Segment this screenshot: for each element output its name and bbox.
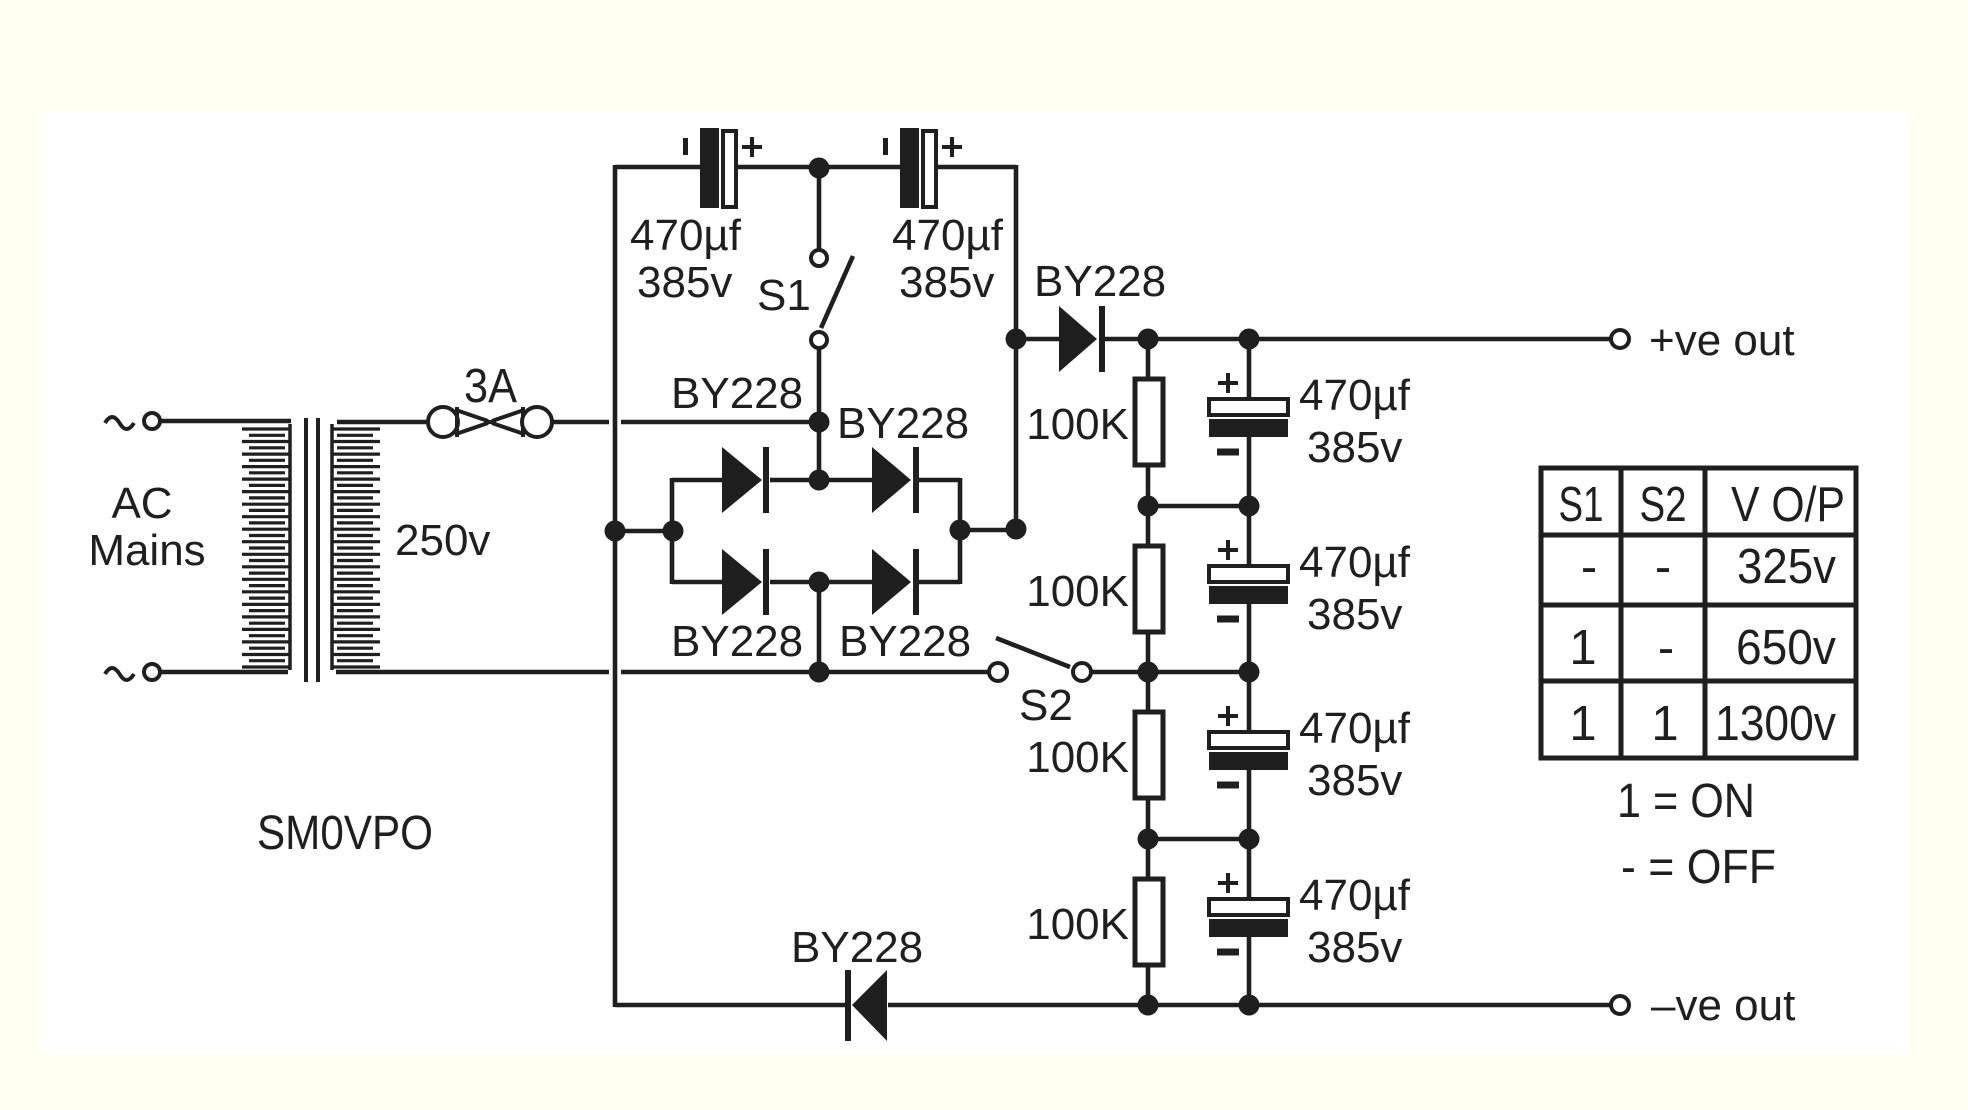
table row2 S1 1 [1569,621,1596,675]
wire divider row 1 [1148,504,1249,509]
svg-text:385v: 385v [1307,923,1402,972]
label C4 470uf [1299,538,1411,587]
label 250v [395,516,490,565]
label D4 BY228 [839,617,971,666]
node divider row 3 right [1239,829,1260,850]
table row1 S2 - [1655,540,1671,594]
bridge bottom rail [672,580,960,585]
svg-text:AC: AC [111,479,172,528]
node bottom wire / C6 [1239,995,1260,1016]
node divider row 1 left [1138,496,1159,517]
table row2 S2 - [1658,621,1674,675]
table row3 S2 1 [1651,697,1678,751]
label R4 100K [1026,900,1129,949]
svg-text:-: - [1581,540,1597,594]
wire right rail to D5 [1016,337,1059,342]
svg-text:470µf: 470µf [1299,371,1411,420]
label D3 BY228 [671,617,803,666]
node bridge bottom AC [809,662,830,683]
table header S2 [1640,478,1687,532]
svg-text:470µf: 470µf [1299,704,1411,753]
svg-text:BY228: BY228 [839,617,971,666]
resistor R2 100K [1135,506,1163,672]
transformer T1 secondary winding [331,424,380,670]
label R2 100K [1026,567,1129,616]
svg-text:-: - [1655,540,1671,594]
svg-text:-: - [1658,621,1674,675]
label S1 [757,271,811,320]
capacitor C2 470uf 385v [883,128,962,208]
capacitor C1 470uf 385v [683,128,762,208]
legend - = OFF [1621,841,1776,894]
label -ve out [1651,981,1795,1030]
wire crossing to node A [621,420,819,425]
transformer T1 core [306,418,318,682]
wire bridge bottom center down [817,582,822,672]
node divider row 2 left [1138,662,1159,683]
label C6 470uf [1299,871,1411,920]
table header S1 [1559,478,1604,532]
svg-text:470µf: 470µf [892,211,1004,260]
diode D2 BY228 (bridge top-right) [872,447,919,513]
label D6 BY228 [791,923,923,972]
node left rail junction [605,521,626,542]
node bottom wire / R4 [1138,995,1159,1016]
svg-text:385v: 385v [1307,423,1402,472]
table row2 650v [1736,621,1836,675]
label C1 385v [637,258,732,307]
node right rail bottom [1006,519,1027,540]
wire AC neutral to primary [161,670,288,675]
diode D5 BY228 (+ve out) [1059,306,1105,372]
capacitor C4 470uf 385v [1209,506,1288,672]
diode D3 BY228 (bridge bottom-left) [722,549,769,615]
svg-text:1: 1 [1651,697,1678,751]
svg-text:100K: 100K [1026,400,1129,449]
svg-text:470µf: 470µf [630,211,742,260]
label R1 100K [1026,400,1129,449]
wire bridge right tap [960,528,1016,533]
resistor R1 100K [1135,339,1163,506]
svg-text:470µf: 470µf [1299,538,1411,587]
wire bottom right [888,1003,1611,1008]
label C1 470uf [630,211,742,260]
label D2 BY228 [837,399,969,448]
label C5 385v [1307,756,1402,805]
svg-text:250v: 250v [395,516,490,565]
node divider row 3 left [1138,829,1159,850]
svg-text:S1: S1 [757,271,811,320]
svg-text:385v: 385v [637,258,732,307]
diode D1 BY228 (bridge top-left) [722,447,769,513]
svg-text:SM0VPO: SM0VPO [257,807,433,860]
AC neutral terminal (~) [105,664,160,680]
wire crossing to S2 [621,670,990,675]
wire S2 to divider [1091,670,1250,675]
node bridge left [663,521,684,542]
label C2 470uf [892,211,1004,260]
bridge right side [958,478,963,584]
table header V O/P [1731,478,1845,532]
table row3 1300v [1715,697,1836,751]
+ve out terminal [1611,330,1629,348]
svg-text:3A: 3A [464,360,517,413]
label C6 385v [1307,923,1402,972]
svg-text:100K: 100K [1026,733,1129,782]
wire secondary top to fuse [337,420,429,425]
svg-text:BY228: BY228 [1034,257,1166,306]
node bridge right [950,520,971,541]
svg-text:S2: S2 [1019,681,1073,730]
node bridge bottom center [809,572,830,593]
svg-text:S2: S2 [1640,478,1687,532]
capacitor C6 470uf 385v [1209,839,1288,1005]
svg-text:+ve out: +ve out [1649,316,1795,365]
svg-text:BY228: BY228 [671,617,803,666]
AC live terminal (~) [105,413,160,429]
capacitor C5 470uf 385v [1209,672,1288,839]
svg-text:385v: 385v [1307,590,1402,639]
bridge left side [670,478,675,584]
node +out rail / R1 [1138,329,1159,350]
transformer T1 primary winding [242,424,291,670]
wire bridge left tap [615,529,673,534]
svg-text:1 = ON: 1 = ON [1617,775,1755,828]
legend 1 = ON [1617,775,1755,828]
table row3 S1 1 [1569,697,1596,751]
wire divider row 3 [1148,837,1249,842]
label C5 470uf [1299,704,1411,753]
wire top loop horizontal [615,165,1016,170]
left rail (loop left / -ve bus) [613,165,618,1007]
diode D4 BY228 (bridge bottom-right) [872,549,919,615]
node A (fuse wire / S1 junction) [809,412,830,433]
label 3A [464,360,517,413]
label S2 [1019,681,1073,730]
svg-text:1: 1 [1569,621,1596,675]
switch S1 [811,250,853,480]
node divider row 1 right [1239,496,1260,517]
label D1 BY228 [671,369,803,418]
svg-text:S1: S1 [1559,478,1604,532]
svg-text:650v: 650v [1736,621,1836,675]
node divider row 2 right [1239,662,1260,683]
label C3 470uf [1299,371,1411,420]
svg-text:BY228: BY228 [671,369,803,418]
svg-text:100K: 100K [1026,900,1129,949]
svg-text:Mains: Mains [88,526,205,575]
svg-text:- = OFF: - = OFF [1621,841,1776,894]
-ve out terminal [1611,996,1629,1014]
svg-text:–ve out: –ve out [1651,981,1795,1030]
node +out rail / C3 [1239,329,1260,350]
table row1 325v [1737,540,1836,594]
fuse F1 3A [428,407,552,437]
wire node to S1 [817,168,822,250]
svg-text:BY228: BY228 [837,399,969,448]
svg-text:325v: 325v [1737,540,1836,594]
wire D5 to +ve out [1105,337,1611,342]
label C2 385v [899,258,994,307]
wire fuse to crossing [551,420,609,425]
node top loop center [809,158,830,179]
wire AC live to primary [161,419,291,424]
label AC Mains [88,479,205,575]
table S1/S2 voltage output grid [1541,468,1856,758]
bridge top rail [672,478,960,483]
svg-text:385v: 385v [899,258,994,307]
capacitor C3 470uf 385v [1209,339,1288,506]
svg-text:1300v: 1300v [1715,697,1836,751]
svg-text:BY228: BY228 [791,923,923,972]
node bridge top center [809,470,830,491]
svg-text:V O/P: V O/P [1731,478,1845,532]
table row1 S1 - [1581,540,1597,594]
label D5 BY228 [1034,257,1166,306]
node right rail / D5 [1006,329,1027,350]
label R3 100K [1026,733,1129,782]
label +ve out [1649,316,1795,365]
resistor R3 100K [1135,672,1163,839]
switch S2 [989,638,1091,681]
right rail (loop right / +ve bus) [1014,165,1019,530]
label SM0VPO [257,807,433,860]
wire bottom left [615,1003,847,1008]
wire secondary bottom to crossing [336,670,609,675]
svg-text:470µf: 470µf [1299,871,1411,920]
label C3 385v [1307,423,1402,472]
svg-text:385v: 385v [1307,756,1402,805]
diode D6 BY228 (-ve out, pointing left) [845,970,887,1041]
label C4 385v [1307,590,1402,639]
svg-text:100K: 100K [1026,567,1129,616]
svg-text:1: 1 [1569,697,1596,751]
resistor R4 100K [1135,839,1163,1005]
